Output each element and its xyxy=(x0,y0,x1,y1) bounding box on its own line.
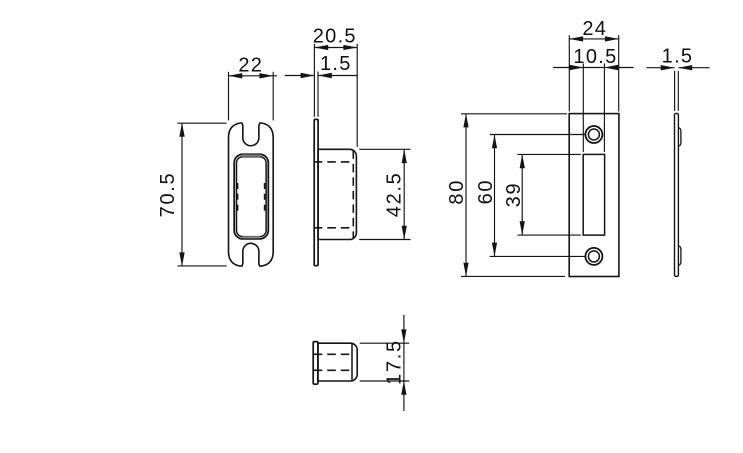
dimension 20.5: extension lines xyxy=(313,44,315,117)
dimension 17.5: bottom arrow xyxy=(401,381,406,395)
strike plate front view: latch slot xyxy=(583,154,604,235)
dimension 42.5: top arrow xyxy=(402,149,407,163)
dimension 17.5: dimension line xyxy=(403,315,405,411)
svg-text:39: 39 xyxy=(503,182,525,208)
top view: hidden cavity lower edge xyxy=(314,369,352,371)
side view: hidden cavity top edge xyxy=(314,161,354,163)
dimension 1.5 (flange): right arrow xyxy=(318,73,332,78)
dimension 80: top arrow xyxy=(463,114,468,128)
dimension 39: extension lines xyxy=(518,153,581,155)
front view: catch plate outline xyxy=(229,123,274,266)
svg-text:60: 60 xyxy=(475,179,497,205)
dimension 22: left arrow xyxy=(229,73,243,78)
svg-text:22: 22 xyxy=(238,55,263,77)
dimension 39: top arrow xyxy=(520,154,525,168)
dimension 60: bottom arrow xyxy=(492,243,497,257)
svg-text:70.5: 70.5 xyxy=(157,172,179,218)
svg-text:10.5: 10.5 xyxy=(573,46,617,68)
top view: flange plate xyxy=(313,342,318,385)
strike plate front view: bottom screw hole outer xyxy=(585,248,602,265)
dimension 17.5: top arrow xyxy=(401,329,406,343)
side view: hidden cavity bottom edge xyxy=(314,227,354,229)
svg-text:17.5: 17.5 xyxy=(384,339,406,385)
dimension 22: extension lines xyxy=(228,72,230,121)
dimension 42.5: dimension line xyxy=(403,149,405,239)
dimension 10.5: right arrow xyxy=(604,65,618,70)
dimension 70.5: top arrow xyxy=(179,123,184,137)
strike plate side view: plate xyxy=(675,113,679,276)
dimension 42.5: extension lines xyxy=(359,148,410,150)
dimension 80: bottom arrow xyxy=(463,263,468,277)
strike plate side view: top screw boss bump xyxy=(678,128,681,146)
svg-text:1.5: 1.5 xyxy=(320,53,352,75)
dimension 60: extension lines xyxy=(490,134,586,136)
dimension 60: dimension line xyxy=(494,135,496,257)
dimension 10.5: left arrow xyxy=(570,65,584,70)
dimension 70.5: bottom arrow xyxy=(179,252,184,266)
dimension 1.5 (strike side): right arrow xyxy=(678,65,692,70)
dimension 20.5: dimension line xyxy=(314,47,357,49)
svg-text:24: 24 xyxy=(582,18,607,40)
front view: centre aperture outer rounded rect xyxy=(234,154,268,239)
dimension 24: right arrow xyxy=(605,36,619,41)
dimension 1.5 (flange): left leader line xyxy=(285,75,315,77)
dimension 70.5: dimension line xyxy=(181,123,183,266)
strike plate front view: top screw hole outer xyxy=(585,126,602,143)
strike plate front view: top screw hole inner xyxy=(588,129,599,140)
dimension 80: extension lines xyxy=(461,113,567,115)
front view: hidden magnet edge right xyxy=(264,183,266,214)
dimension 17.5: extension lines xyxy=(360,342,410,344)
front view: hidden magnet edge left xyxy=(237,183,239,214)
dimension 10.5: dimension line xyxy=(553,67,634,69)
dimension 10.5: extension lines xyxy=(582,63,584,151)
dimension 24: extension lines xyxy=(568,35,570,111)
dimension 24: dimension line xyxy=(569,38,618,40)
svg-text:20.5: 20.5 xyxy=(313,25,357,47)
dimension 20.5: right arrow xyxy=(343,45,357,50)
front view: bottom chamfer band xyxy=(243,236,260,238)
dimension 42.5: bottom arrow xyxy=(402,226,407,240)
dimension 39: bottom arrow xyxy=(520,221,525,235)
dimension 1.5 (flange): right leader line xyxy=(318,75,358,77)
strike plate front view: bottom screw hole inner xyxy=(588,251,599,262)
dimension 70.5: extension lines xyxy=(178,122,227,124)
side view: body xyxy=(318,149,356,239)
dimension 80: dimension line xyxy=(465,114,467,277)
dimension 1.5 (flange): left arrow xyxy=(301,73,315,78)
dimension 1.5 (strike side): extension lines xyxy=(674,71,676,111)
front view: top chamfer band xyxy=(242,154,261,157)
dimension 20.5: left arrow xyxy=(314,45,328,50)
strike plate front view: plate outline xyxy=(569,114,619,277)
dimension 22: right arrow xyxy=(259,73,273,78)
svg-text:1.5: 1.5 xyxy=(662,46,694,68)
top view: hidden cavity upper edge xyxy=(314,353,352,355)
dimension 1.5 (strike side): right leader line xyxy=(678,67,709,69)
dimension 1.5 (strike side): left leader line xyxy=(646,67,674,69)
dimension 39: dimension line xyxy=(521,154,523,235)
dimension 60: top arrow xyxy=(492,135,497,149)
top view: nose tangent edge xyxy=(351,344,353,380)
dimension 1.5 (strike side): left arrow xyxy=(661,65,675,70)
svg-text:80: 80 xyxy=(446,179,468,205)
side view: hidden cavity right edge xyxy=(352,150,354,238)
front view: centre aperture inner rounded rect xyxy=(237,157,267,237)
top view: body xyxy=(318,343,357,381)
svg-text:42.5: 42.5 xyxy=(384,172,406,218)
strike plate side view: bottom screw boss bump xyxy=(678,246,681,265)
dimension 24: left arrow xyxy=(569,36,583,41)
side view: flange plate xyxy=(314,119,318,265)
dimension 22: dimension line xyxy=(229,75,278,77)
